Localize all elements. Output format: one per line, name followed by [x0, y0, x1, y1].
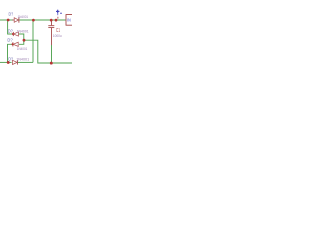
svg-text:D?: D?	[7, 37, 13, 42]
svg-text:1N4001: 1N4001	[17, 28, 30, 33]
svg-text:1N4001: 1N4001	[17, 46, 28, 51]
svg-text:D?: D?	[9, 12, 14, 17]
svg-text:IN: IN	[67, 18, 71, 24]
svg-text:1N4001: 1N4001	[16, 57, 30, 62]
svg-text:1N4001: 1N4001	[18, 14, 29, 19]
svg-text:C1: C1	[56, 28, 60, 34]
svg-text:D?: D?	[8, 57, 13, 62]
svg-text:D?: D?	[8, 29, 13, 34]
svg-text:1000u: 1000u	[53, 33, 62, 38]
